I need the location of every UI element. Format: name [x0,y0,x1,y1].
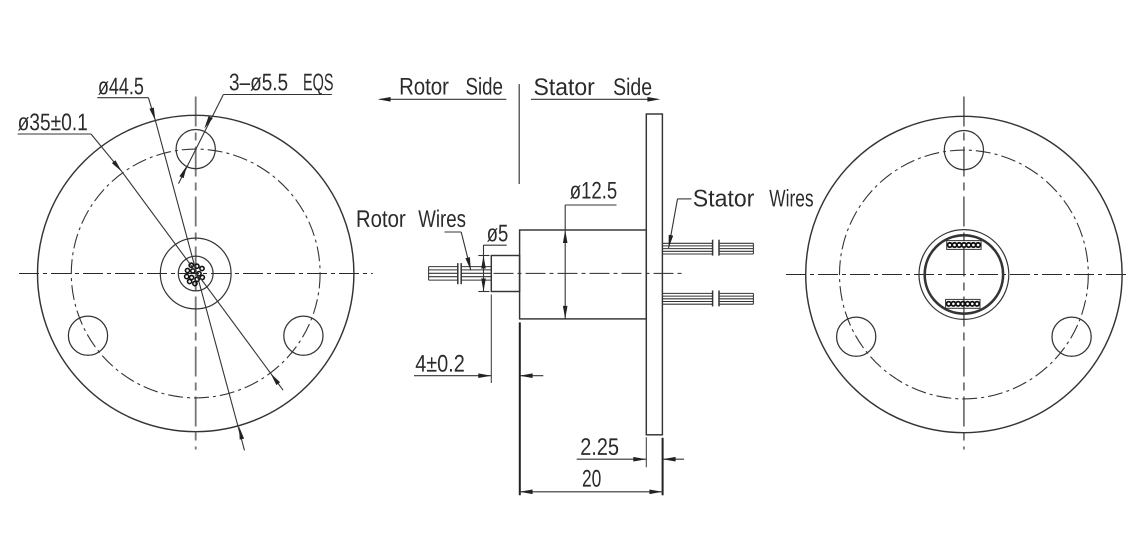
left view mounting hole lower-left [68,316,107,355]
right view flange outer circle [806,116,1122,432]
dimension label phi5 [487,225,507,242]
dimension label 3-phi5.5 EQS [230,74,288,91]
label Rotor Wires [358,210,406,227]
right view vertical centerline [963,97,965,450]
dimension label 4 plus-minus 0.2 [416,355,464,372]
label Stator Side [535,78,595,95]
left view hub inner circle [178,256,213,291]
label Stator Wires [694,190,754,207]
stator side arrow line [531,97,660,102]
right view mounting hole lower-right [1052,317,1091,356]
left view mounting hole top [176,130,215,169]
left view mounting hole lower-right [284,316,323,355]
label Rotor Side [401,78,449,95]
rotor/stator divider line [518,84,520,184]
rotor wires leader [445,232,471,270]
right view hub outer circle [919,230,1009,320]
left view vertical centerline [195,97,197,450]
right view hub inner circle (thick) [925,235,1003,313]
left view hub outer circle [160,238,231,309]
dimension 2.25 line and arrows [577,457,684,462]
right view top connector block [947,241,981,250]
dimension phi35 leader [18,134,122,172]
dimension phi35 line through center [112,160,283,390]
stator wires leader [669,199,692,248]
right view horizontal centerline [786,274,1128,276]
stator wires top bundle left segment [662,243,712,254]
stator wires top bundle right segment [719,243,753,254]
dimension phi5 lines [478,245,506,291]
right view bottom connector block [946,299,980,308]
dimension 3-phi5.5 leader [179,95,332,184]
stator wires bottom bundle right segment [719,293,753,304]
right view bolt circle [840,150,1089,399]
left view horizontal centerline [19,273,373,275]
rotor wires bundle right segment [461,267,491,281]
stator wires bottom bundle left segment [662,293,712,304]
dimension label 20 [583,470,601,487]
dimension label phi44.5 [98,78,143,95]
dimension phi12.5 lines [563,205,617,319]
dimension 20 line and arrows [520,490,663,495]
dimension phi44.5 line through center [149,108,244,451]
stator wires top bundle crimp bars [713,240,719,256]
side view horizontal centerline [494,272,685,274]
rotor wires bundle crimp bars [458,263,461,284]
side view flange plate [646,114,662,435]
rotor wires bundle left segment [429,267,458,281]
dimension 2.25 extension lines [646,437,662,495]
dimension label 2.25 [581,438,618,455]
dimension label phi35 [18,113,87,130]
rotor side arrow line [378,97,507,102]
dimension 4 extension lines [491,295,520,496]
stator wires bottom bundle crimp bars [713,291,719,307]
left view bolt circle phi35 [71,149,320,398]
right view mounting hole top [944,131,983,170]
left view flange outer circle [38,115,354,431]
dimension 4 line and arrows [414,373,543,378]
dimension label phi12.5 [570,182,616,199]
side view rotor shaft step [491,256,519,292]
dimension phi44.5 leader [97,98,155,121]
side view body rectangle [520,230,647,319]
left view rotor wire bundle (cluster of wires) [185,263,205,286]
right view mounting hole lower-left [837,317,876,356]
